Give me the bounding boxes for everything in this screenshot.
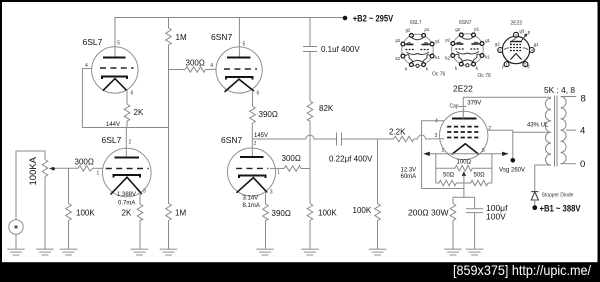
grid2 V3 [447,131,478,133]
transformer core [555,96,558,167]
wire cap to 82K [309,52,311,102]
svg-text:[859x375] http://upic.me/: [859x375] http://upic.me/ [453,262,591,278]
plate bar V1a [103,57,126,59]
svg-text:6SL7: 6SL7 [102,135,122,145]
wire 300 ohm to grid [93,167,103,169]
grid V1b [106,168,149,170]
socket diagram 2E22 [495,21,539,70]
ground 100K right [369,249,387,255]
arrow right filament [502,152,509,156]
wire 200 ohm lead [452,197,454,203]
ground 200 ohm [444,249,462,255]
wire 144V node rail [82,127,168,129]
svg-text:g3: g3 [520,29,525,34]
wire 2K to 144V node [126,121,128,128]
svg-text:6SN7: 6SN7 [221,135,243,145]
svg-text:0.1uf 400V: 0.1uf 400V [321,45,360,54]
wire 1M lower to ground [168,221,170,250]
svg-text:5: 5 [117,41,120,47]
diode stopper [531,191,538,193]
plate bar V2b [240,156,264,158]
svg-text:82K: 82K [319,104,334,113]
resistor 1M upper [166,28,172,45]
ground 390 lower [256,249,274,255]
svg-text:g1: g1 [485,38,490,43]
wire grid leak 100K lead [377,139,379,204]
svg-text:5K : 4, 8: 5K : 4, 8 [544,85,575,95]
svg-text:k1: k1 [485,55,490,60]
top cap terminal [459,106,466,108]
pot wiper arrow up [462,171,466,176]
svg-text:2: 2 [499,49,501,53]
svg-text:Oc 76: Oc 76 [432,71,446,77]
wire 300 ohm to grid [206,68,217,70]
wire 82K down through hop to divider and 100K [309,121,311,204]
resistor 2.2K [394,136,414,142]
svg-text:4: 4 [85,63,88,69]
pentode V3 2E22 envelope [440,111,488,159]
grid3 V3 [447,126,478,128]
svg-text:2K: 2K [134,108,144,117]
svg-text:p1: p1 [474,27,479,32]
wire 145V output line with hop over divider [253,135,337,139]
svg-text:2E22: 2E22 [453,84,473,94]
ground 100uf [466,249,484,255]
svg-text:6: 6 [257,90,260,96]
wire 1M upper lead [168,18,170,29]
resistor 100K left [307,204,313,221]
plate bar V2a [227,56,251,58]
input jack [9,220,23,234]
socket diagram 6SN7 [445,20,491,79]
resistor 300 ohm 6SN7 grid [185,67,206,73]
svg-text:g2: g2 [455,27,460,32]
cathode bar V2b [239,175,266,178]
wire pot bottom to ground [44,177,46,250]
wire V2a cathode down [253,91,254,106]
wire 50 ohm right riser [491,168,493,183]
wire primary bottom to diode [535,165,551,192]
triode V1a upper 6SL7 envelope [92,47,138,93]
wire V2b cathode down [266,192,267,204]
svg-text:100V: 100V [486,211,506,221]
wire 2.2K to 2E22 grid with hop [414,135,445,139]
svg-text:5: 5 [243,42,246,48]
wire top B+ bus [115,18,345,58]
resistor 50 ohm left [436,180,464,186]
wire to ground [139,221,141,250]
svg-text:Cap: Cap [450,103,459,109]
wire V1b cathode down [140,194,142,204]
svg-text:390Ω: 390Ω [272,209,291,218]
svg-text:5: 5 [482,148,485,154]
svg-text:4: 4 [210,63,213,69]
svg-text:4: 4 [580,126,585,137]
svg-text:1: 1 [442,148,445,154]
svg-text:300Ω: 300Ω [75,157,94,166]
resistor 2K upper (cathode V1a) [124,104,130,121]
transformer T1 primary [545,98,551,165]
wire 390 lower to ground [265,221,267,250]
wire 300 ohm to divider node [301,168,310,170]
svg-text:6SN7: 6SN7 [211,32,233,42]
resistor 390 ohm lower [263,204,269,221]
capacitor 0.22uf 400V [337,133,342,146]
svg-text:3: 3 [435,133,438,139]
ground pot [36,249,54,255]
svg-text:300Ω: 300Ω [282,154,301,163]
svg-text:200Ω 30W: 200Ω 30W [408,207,449,217]
wire 0.1uf cap top lead [309,18,311,47]
svg-text:F: F [502,65,505,70]
wire cathode node split [453,196,475,198]
triode V2a upper 6SN7 envelope [216,47,262,93]
svg-text:+B2 ~ 295V: +B2 ~ 295V [353,13,394,23]
resistor 200 ohm 30W [450,204,456,221]
wire junction to 300 ohm [169,69,186,71]
svg-text:g2: g2 [406,28,411,33]
wire 100K tap [68,168,70,203]
svg-text:2.2K: 2.2K [389,128,406,137]
grid V1a [100,67,134,69]
wire g3 pin4 to filament return [422,121,464,189]
svg-text:g1: g1 [435,39,440,44]
wire screen pin2 to Vsg [487,130,513,158]
wire secondary tap 4 [566,129,576,131]
wire 6SN7 upper plate riser [238,18,240,58]
svg-text:g2: g2 [495,42,500,47]
svg-text:3: 3 [270,189,273,195]
node +B2 dot [343,16,348,21]
resistor 100K input [66,204,72,221]
wire cap to 2.2K [342,138,394,140]
wire diode to B1 [534,200,536,206]
svg-text:6SN7: 6SN7 [459,20,472,26]
node Vsg dot [511,158,516,163]
wire filament line with arrows [427,153,505,155]
svg-text:100Ω: 100Ω [457,160,472,166]
wire V1a grid to lower plate node [82,69,91,128]
wire wiper to 300 ohm [55,167,78,169]
wire UL tap [513,131,549,133]
svg-text:100K: 100K [76,209,95,218]
ground jack [7,249,25,255]
arrow left filament [423,152,430,156]
svg-text:3: 3 [515,33,517,37]
transformer T1 secondary [561,97,567,164]
capacitor 0.1uf 400V [303,47,317,52]
svg-text:6SL7: 6SL7 [83,37,103,47]
svg-text:1M: 1M [175,209,186,218]
wire V2b grid to 300 ohm [270,167,284,169]
resistor 390 ohm upper [250,106,256,123]
svg-text:100KA: 100KA [28,156,39,185]
wire 200 ohm to ground [452,221,454,250]
svg-text:p2: p2 [445,38,450,43]
resistor 50 ohm right [464,180,492,186]
grid V2b [236,167,268,169]
svg-text:k2: k2 [396,56,401,61]
svg-text:1.388V: 1.388V [117,192,136,198]
svg-text:F: F [528,65,531,70]
resistor 82K [307,101,313,121]
filament V1b [111,177,142,194]
resistor 300 ohm V2b grid [284,166,301,172]
svg-text:1: 1 [277,170,280,176]
wire 100K right to ground [377,221,379,250]
svg-text:6SL7: 6SL7 [410,20,422,26]
potentiometer 100 ohm hum [455,166,472,172]
svg-text:p1: p1 [425,27,430,32]
svg-text:Stopper Diode: Stopper Diode [542,193,574,199]
svg-text:1: 1 [97,170,100,176]
svg-text:12.3V: 12.3V [401,168,417,174]
svg-text:0.7mA: 0.7mA [118,201,135,207]
svg-text:5: 5 [524,63,526,67]
wire 100K to ground [309,221,311,250]
wire V1a cathode down [125,90,128,104]
wire 100uf lead [474,197,476,209]
svg-text:3.14V: 3.14V [243,196,259,202]
svg-text:2E22: 2E22 [511,21,523,27]
svg-text:1: 1 [506,63,508,67]
wire 100uf to ground [474,213,476,250]
grid1 V3 [447,137,478,139]
svg-text:8: 8 [581,93,586,104]
svg-text:1M: 1M [176,33,187,42]
pot wiper arrow [49,167,54,170]
wire jack to pot [16,151,45,220]
node +B1 dot [532,205,537,210]
svg-text:p2: p2 [396,38,401,43]
svg-text:0.22μf 400V: 0.22μf 400V [329,155,373,164]
grid V2a [224,68,257,70]
filament V2b [237,178,267,193]
svg-text:k1: k1 [435,55,440,60]
svg-text:Vsg 260V: Vsg 260V [499,168,525,174]
resistor 2K lower (cathode V1b) [137,204,143,221]
svg-text:379V: 379V [467,100,481,106]
svg-text:2K: 2K [122,209,132,218]
svg-text:300Ω: 300Ω [186,59,205,68]
wire 1M to junction and down to 144V rail [168,45,170,128]
svg-text:g1: g1 [534,42,539,47]
wire plate top cap [463,97,551,118]
svg-text:4: 4 [531,49,533,53]
cathode bar V1a [102,76,127,79]
wire 144V rail down to 1M lower [168,128,170,204]
ground 100K left [301,249,319,255]
wire wiper down [463,175,465,197]
plate cap arrow [522,35,527,41]
wire secondary tap 0 [561,163,577,165]
potentiometer 100KA [42,160,48,177]
ground 100K input [60,249,78,255]
svg-text:50Ω: 50Ω [443,172,455,178]
wire hum pot left drop [436,154,455,169]
wire hum pot right drop [472,154,492,169]
resistor 1M lower [166,204,172,221]
resistor 300 ohm input grid stopper [78,166,93,172]
plate bar V1b [115,157,139,159]
svg-text:+B1 ~ 388V: +B1 ~ 388V [540,203,581,213]
svg-text:0: 0 [580,159,585,170]
svg-text:8.1mA: 8.1mA [243,203,260,209]
wire secondary tap 8 [561,96,577,98]
svg-text:390Ω: 390Ω [259,110,278,119]
ground 2K [131,249,149,255]
svg-text:2: 2 [254,141,257,147]
svg-text:50Ω: 50Ω [474,172,486,178]
resistor 100K right [375,204,381,221]
filament V3 [452,144,478,154]
filament V1a [103,79,126,91]
svg-text:6: 6 [131,90,134,96]
svg-text:2: 2 [488,126,491,132]
svg-text:43% UL: 43% UL [527,123,549,129]
svg-text:3: 3 [143,188,146,194]
svg-text:k2: k2 [445,56,450,61]
svg-text:100K: 100K [318,209,337,218]
svg-text:Oc 76: Oc 76 [478,73,492,79]
svg-text:100K: 100K [353,206,372,215]
socket diagram 6SL7 [396,20,446,77]
wire 390 to 145V node [251,123,253,157]
triode V2b lower 6SN7 envelope [228,148,276,196]
triode V1b lower 6SL7 envelope [103,148,152,197]
plate bar V3 [452,118,477,120]
svg-text:60mA: 60mA [401,174,417,180]
svg-text:2: 2 [129,140,132,146]
svg-text:145V: 145V [254,133,268,139]
capacitor 100uf 100V [466,209,483,213]
wire jack ground lead [15,234,17,249]
wire 50 ohm left riser [435,168,437,183]
cathode bar V1b [114,175,140,178]
ground 1M lower [160,249,178,255]
wire lower plate riser [125,128,127,158]
cathode bar V2a [226,77,253,80]
filament V2a [225,79,254,91]
wire 100K to ground [68,221,70,250]
